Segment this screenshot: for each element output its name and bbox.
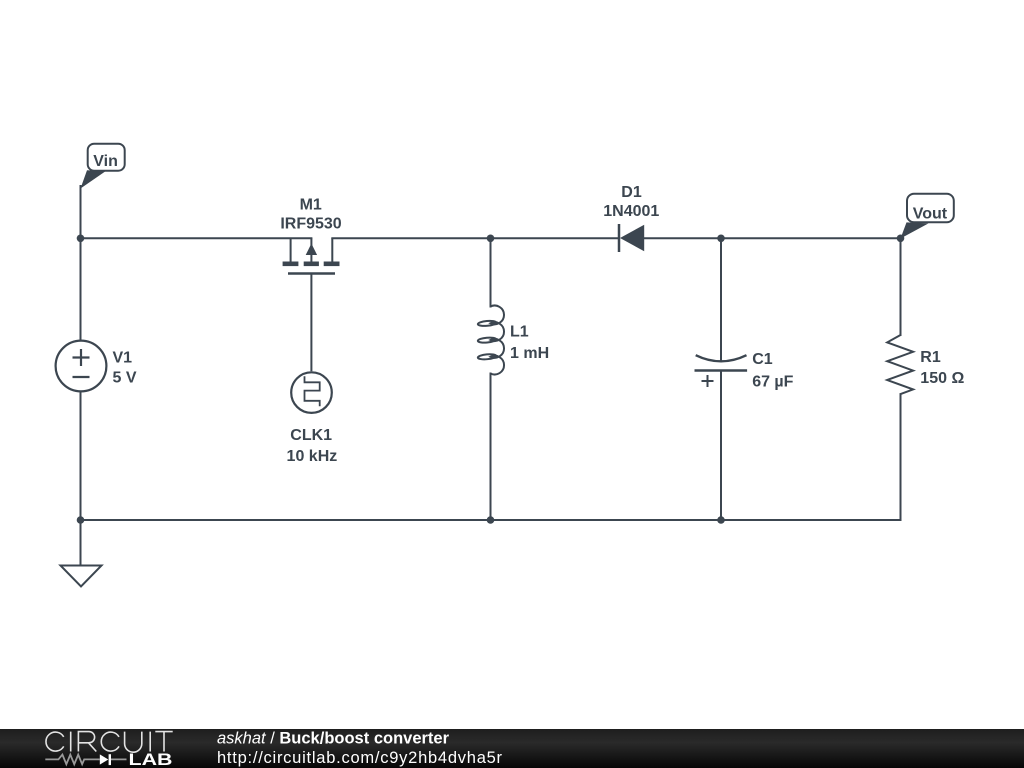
wire: C1 top lead — [720, 238, 722, 361]
wire: Vin flag lead to top-left node — [80, 186, 82, 238]
capacitor C1 (polarized) — [695, 355, 748, 387]
wire: V1 top lead — [80, 238, 82, 340]
svg-text:10 kHz: 10 kHz — [287, 448, 338, 465]
node: Vin / V1 / top rail junction — [77, 235, 85, 243]
wire: L1 top lead — [490, 238, 492, 306]
wire: V1 bottom lead to ground rail — [80, 393, 82, 521]
svg-text:CLK1: CLK1 — [290, 427, 332, 444]
wire: R1 bottom lead — [900, 394, 902, 520]
net flag Vout — [901, 194, 954, 239]
svg-text:Vout: Vout — [913, 206, 948, 223]
node: C1 top junction — [717, 235, 725, 243]
diode D1 — [619, 224, 644, 252]
svg-text:D1: D1 — [621, 184, 642, 201]
svg-text:1N4001: 1N4001 — [603, 203, 659, 220]
CircuitLab logo: CIRCUIT wordmark — [46, 732, 173, 753]
svg-text:150 Ω: 150 Ω — [920, 370, 964, 387]
node: C1 bottom junction — [717, 516, 725, 524]
svg-text:R1: R1 — [920, 349, 941, 366]
CircuitLab logo: resistor-diode squiggle — [45, 755, 126, 765]
inductor L1 — [478, 306, 504, 375]
wire: C1 bottom lead — [720, 371, 722, 521]
svg-text:IRF9530: IRF9530 — [280, 215, 341, 232]
wire: top rail left segment (node A to M1 source) — [81, 237, 312, 239]
svg-text:askhat / Buck/boost converter: askhat / Buck/boost converter — [217, 730, 450, 748]
svg-text:M1: M1 — [300, 197, 322, 214]
transistor M1 (PMOS) — [283, 238, 340, 371]
svg-text:http://circuitlab.com/c9y2hb4d: http://circuitlab.com/c9y2hb4dvha5r — [217, 749, 503, 767]
svg-text:1 mH: 1 mH — [510, 345, 549, 362]
node: L1 bottom junction — [487, 516, 495, 524]
clock source CLK1 — [291, 372, 332, 413]
svg-text:C1: C1 — [752, 351, 773, 368]
node: L1 top junction — [487, 235, 495, 243]
resistor R1 — [887, 335, 913, 394]
svg-text:LAB: LAB — [129, 750, 173, 768]
ground symbol — [61, 566, 102, 587]
wire: ground stem — [80, 520, 82, 566]
svg-text:V1: V1 — [113, 349, 133, 366]
wire: bottom ground rail — [81, 519, 901, 521]
wire: top rail right segment (D1 cathode to Vout node) — [644, 237, 900, 239]
svg-text:Vin: Vin — [93, 153, 118, 170]
wire: R1 top lead — [900, 238, 902, 335]
svg-text:L1: L1 — [510, 324, 529, 341]
voltage source V1 — [56, 341, 107, 392]
node: Vout junction — [897, 235, 905, 243]
svg-text:67 µF: 67 µF — [752, 374, 793, 391]
svg-text:5 V: 5 V — [113, 370, 137, 387]
wire: top rail middle segment (M1 drain to D1 anode) — [332, 237, 618, 239]
net flag Vin — [81, 144, 125, 189]
wire: L1 bottom lead — [490, 374, 492, 521]
node: ground rail left junction — [77, 516, 85, 524]
